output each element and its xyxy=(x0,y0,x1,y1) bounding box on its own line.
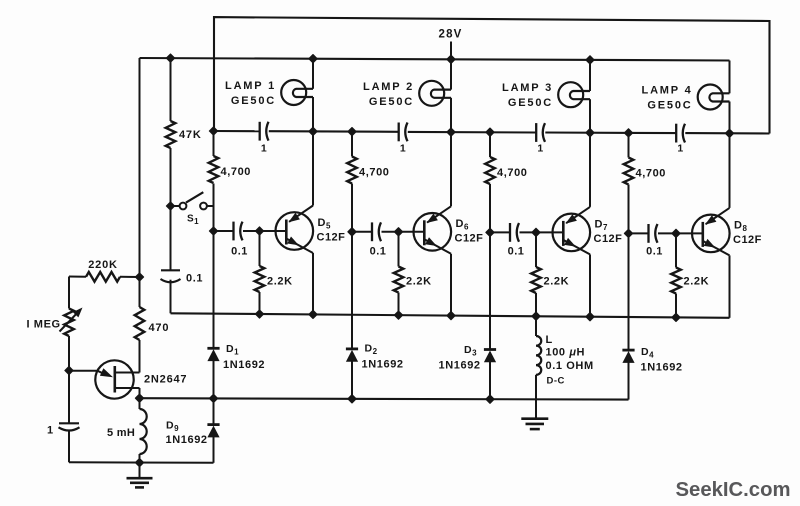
wire D2 to rail xyxy=(351,361,353,399)
node 2.2K / emitter rail (stage 1) xyxy=(255,310,263,318)
lamp LAMP2 GE50C symbol xyxy=(419,81,451,106)
label 1N1692 (D2) xyxy=(362,359,404,371)
label C12F (D8) xyxy=(733,234,762,246)
inductor 5 mH xyxy=(140,409,147,454)
label 470 xyxy=(149,322,170,334)
node D3 / rail xyxy=(486,395,494,403)
svg-text:0.1: 0.1 xyxy=(231,246,248,258)
node base1 / ground rail xyxy=(135,394,143,402)
wire 0.1 cap left lead (stage 2) xyxy=(352,231,372,233)
wire 28V feed stub xyxy=(450,42,452,60)
label D3 xyxy=(464,344,477,358)
resistor 2.2K (stage 2) xyxy=(394,267,404,293)
node 0.1 cap row stage1 xyxy=(209,227,217,235)
label 0.1 (stage 3) xyxy=(508,246,525,258)
svg-text:1N1692: 1N1692 xyxy=(641,362,683,374)
label 2.2K (stage 3) xyxy=(544,276,570,288)
wire 220K right lead xyxy=(120,276,140,278)
label 2N2647 xyxy=(144,374,187,386)
wire collector column (stage 4) xyxy=(729,133,731,208)
wire 1MEG junction to cap xyxy=(68,371,70,424)
svg-text:220K: 220K xyxy=(88,259,118,271)
wire D4 to rail xyxy=(628,362,630,400)
svg-text:LAMP 1: LAMP 1 xyxy=(225,80,276,92)
svg-text:GE50C: GE50C xyxy=(231,95,276,107)
svg-text:1: 1 xyxy=(400,143,406,155)
resistor 220K xyxy=(86,272,120,282)
wire lamp3 top lead xyxy=(589,60,591,91)
label 4,700 (stage 1) xyxy=(221,166,252,178)
label 4,700 (stage 4) xyxy=(636,168,667,180)
svg-text:GE50C: GE50C xyxy=(508,97,553,109)
label 1N1692 (D1) xyxy=(223,359,265,371)
ground (main) xyxy=(127,463,153,488)
transistor D7 C12F xyxy=(553,207,591,255)
svg-text:4,700: 4,700 xyxy=(221,166,252,178)
resistor 2.2K (stage 4) xyxy=(671,268,681,294)
label GE50C (lamp 1) xyxy=(231,95,276,107)
node 0.1 cap row stage2 xyxy=(348,228,356,236)
wire bottom ground rail xyxy=(69,461,214,464)
node 0.1 cap row stage4 xyxy=(624,229,632,237)
diode D2 1N1692 xyxy=(346,349,358,362)
wire 2.2K bottom lead (stage 4) xyxy=(675,294,677,318)
wire collector column (stage 1) xyxy=(312,131,314,205)
svg-text:LAMP 3: LAMP 3 xyxy=(502,82,553,94)
capacitor 0.1 (stage 4) xyxy=(649,224,658,243)
diode D1 1N1692 xyxy=(207,348,219,361)
label 0.1 (timing) xyxy=(186,273,203,285)
capacitor 0.1 (timing) xyxy=(161,270,181,282)
svg-text:4,700: 4,700 xyxy=(359,167,390,179)
label 4,700 (stage 3) xyxy=(497,167,528,179)
transistor D5 C12F xyxy=(276,206,314,254)
resistor 2.2K (stage 3) xyxy=(531,267,541,293)
svg-text:0.1 OHM: 0.1 OHM xyxy=(546,360,594,372)
wire 1MEG bottom lead xyxy=(68,336,70,371)
label C12F (D5) xyxy=(317,232,346,244)
junction cap row xyxy=(486,128,494,136)
svg-text:1: 1 xyxy=(47,425,54,437)
wire 470 to base two xyxy=(139,340,141,373)
label C12F (D7) xyxy=(594,233,623,245)
label D6 xyxy=(456,218,469,232)
wire cap to bottom rail xyxy=(68,430,70,463)
wire 2.2K top lead (stage 1) xyxy=(259,231,261,266)
wire 0.1 cap left lead (stage 1) xyxy=(214,230,234,232)
label 1N1692 (D4) xyxy=(641,362,683,374)
diode D4 1N1692 xyxy=(622,350,634,363)
junction cap row xyxy=(309,127,317,135)
svg-text:1N1692: 1N1692 xyxy=(223,359,265,371)
watermark SeekIC.com xyxy=(676,479,791,501)
wire 470 top lead xyxy=(139,277,141,307)
capacitor C1 value 1 xyxy=(260,122,269,141)
junction cap row xyxy=(624,129,632,137)
wire 0.1 cap left lead (stage 4) xyxy=(629,232,649,234)
wire L top lead xyxy=(535,316,537,336)
wire emitter rail xyxy=(171,313,730,318)
label D8 xyxy=(734,219,747,233)
label D-C xyxy=(547,376,565,387)
capacitor C2 value 1 xyxy=(399,123,408,142)
inductor L 100uH xyxy=(536,336,541,375)
svg-text:4,700: 4,700 xyxy=(636,168,667,180)
svg-text:I MEG: I MEG xyxy=(27,319,61,331)
wire D3 to rail xyxy=(489,362,491,400)
wire coupling capacitor row xyxy=(214,131,770,134)
wire emitter column (stage 4) xyxy=(729,255,731,317)
node cap row / loop input xyxy=(209,127,217,135)
wire 1MEG top lead xyxy=(68,277,70,309)
label D5 xyxy=(318,217,331,231)
svg-text:2.2K: 2.2K xyxy=(406,276,432,288)
label 220K xyxy=(88,259,118,271)
svg-text:0.1: 0.1 xyxy=(186,273,203,285)
wire 5mH top lead xyxy=(139,398,141,409)
svg-text:470: 470 xyxy=(149,322,170,334)
svg-text:1: 1 xyxy=(537,143,543,155)
node emitter junction xyxy=(65,366,73,374)
svg-text:C12F: C12F xyxy=(455,232,484,244)
wire 5mH bottom lead xyxy=(139,454,141,463)
label 1 (C1) xyxy=(261,143,267,155)
wire top feedback loop xyxy=(214,17,770,133)
label GE50C (lamp 4) xyxy=(647,100,692,112)
node 2.2K top (stage 4) xyxy=(672,229,680,237)
switch S1 xyxy=(171,192,214,209)
label 47K xyxy=(179,129,202,141)
node D1 / rail xyxy=(209,394,217,402)
node rail / 47K xyxy=(166,54,174,62)
capacitor 0.1 (stage 3) xyxy=(510,223,519,242)
label 100 uH xyxy=(546,347,586,359)
wire base column top (stage 1) xyxy=(213,131,215,156)
svg-text:4,700: 4,700 xyxy=(497,167,528,179)
wire 2.2K top lead (stage 2) xyxy=(398,232,400,267)
label 0.1 (stage 2) xyxy=(370,246,387,258)
svg-text:1: 1 xyxy=(261,143,267,155)
node S1 left xyxy=(166,202,174,210)
label 1N1692 (D3) xyxy=(439,360,481,372)
wire 47K bottom lead xyxy=(170,148,172,206)
diode D3 1N1692 xyxy=(484,350,496,363)
wire collector column (stage 2) xyxy=(450,132,452,206)
svg-text:2N2647: 2N2647 xyxy=(144,374,187,386)
label 1 (C2) xyxy=(400,143,406,155)
wire lamp1 bottom lead xyxy=(312,97,314,131)
wire lamp3 bottom lead xyxy=(589,99,591,133)
label 28V xyxy=(438,29,462,41)
label 2.2K (stage 4) xyxy=(684,276,710,288)
wire collector column (stage 3) xyxy=(589,133,591,207)
svg-text:0.1: 0.1 xyxy=(508,246,525,258)
svg-text:C12F: C12F xyxy=(733,234,762,246)
label 2.2K (stage 1) xyxy=(267,276,293,288)
svg-text:SeekIC.com: SeekIC.com xyxy=(676,479,791,501)
wire lamp2 top lead xyxy=(450,59,452,89)
label L xyxy=(546,334,553,346)
wire lamp1 top lead xyxy=(312,59,314,89)
diode D9 1N1692 xyxy=(207,425,219,438)
svg-text:GE50C: GE50C xyxy=(369,96,414,108)
wire 2.2K bottom lead (stage 2) xyxy=(398,293,400,316)
label D2 xyxy=(365,343,378,357)
label D1 xyxy=(226,343,239,357)
node emitter / rail (stage 1) xyxy=(309,310,317,318)
svg-text:L: L xyxy=(546,334,553,346)
resistor 4,700 (stage 3) xyxy=(485,157,495,184)
resistor 2.2K (stage 1) xyxy=(255,266,265,292)
svg-text:2.2K: 2.2K xyxy=(544,276,570,288)
svg-text:0.1: 0.1 xyxy=(370,246,387,258)
svg-text:2.2K: 2.2K xyxy=(267,276,293,288)
wire 2.2K bottom lead (stage 3) xyxy=(535,293,537,316)
wire 2.2K bottom lead (stage 1) xyxy=(259,292,261,314)
ground (L) xyxy=(521,419,548,429)
wire lamp4 top lead xyxy=(729,61,731,94)
node rail / lamp1 xyxy=(309,55,317,63)
svg-text:GE50C: GE50C xyxy=(647,100,692,112)
svg-text:1N1692: 1N1692 xyxy=(166,434,208,446)
resistor 1 MEG (variable) xyxy=(60,308,83,337)
label LAMP 2 xyxy=(363,81,414,93)
wire base lead (stage 3) xyxy=(520,231,564,233)
resistor 4,700 (stage 1) xyxy=(209,156,219,183)
label D7 xyxy=(595,218,608,232)
wire +28V rail xyxy=(140,58,730,61)
wire emitter column (stage 1) xyxy=(312,253,314,314)
svg-text:47K: 47K xyxy=(179,129,202,141)
node 5mH / bottom rail xyxy=(135,459,143,467)
wire base column stage1 xyxy=(213,184,215,349)
node 220K / 470 xyxy=(135,273,143,281)
svg-text:1N1692: 1N1692 xyxy=(439,360,481,372)
node 2.2K / emitter rail (stage 3) xyxy=(532,312,540,320)
wire base column stage4 xyxy=(628,185,630,351)
svg-text:1N1692: 1N1692 xyxy=(362,359,404,371)
lamp LAMP1 GE50C symbol xyxy=(281,80,313,105)
label D4 xyxy=(641,346,654,360)
wire base column top (stage 4) xyxy=(628,133,630,158)
node 2.2K top (stage 1) xyxy=(255,227,263,235)
node 28V rail / lamp2 xyxy=(447,55,455,63)
node 2.2K / emitter rail (stage 2) xyxy=(394,311,402,319)
wire emitter column (stage 2) xyxy=(450,254,452,316)
wire emitter column (stage 3) xyxy=(589,254,591,316)
wire lamp2 bottom lead xyxy=(450,98,452,132)
svg-text:C12F: C12F xyxy=(317,232,346,244)
svg-text:C12F: C12F xyxy=(594,233,623,245)
wire base lead (stage 4) xyxy=(658,232,703,234)
label LAMP 1 xyxy=(225,80,276,92)
svg-text:LAMP 4: LAMP 4 xyxy=(642,85,693,97)
node 2.2K top (stage 2) xyxy=(394,228,402,236)
wire D9 top lead xyxy=(213,398,215,424)
wire base column top (stage 3) xyxy=(489,133,491,158)
svg-text:2.2K: 2.2K xyxy=(684,276,710,288)
wire 0.1 cap left lead (stage 3) xyxy=(490,231,510,233)
wire S column to emitter rail xyxy=(170,280,172,314)
capacitor C4 value 1 xyxy=(676,124,685,143)
label 4,700 (stage 2) xyxy=(359,167,390,179)
node 0.1 cap row stage3 xyxy=(486,228,494,236)
label 1 (C3) xyxy=(537,143,543,155)
wire left rail column xyxy=(139,58,141,277)
capacitor 0.1 (stage 1) xyxy=(234,222,243,241)
svg-text:5 mH: 5 mH xyxy=(107,427,135,439)
label GE50C (lamp 2) xyxy=(369,96,414,108)
wire base lead (stage 2) xyxy=(382,231,425,233)
junction cap row xyxy=(586,129,594,137)
svg-text:D-C: D-C xyxy=(547,376,565,387)
capacitor 1 (emitter) xyxy=(59,423,80,430)
capacitor C3 value 1 xyxy=(536,123,545,142)
svg-text:28V: 28V xyxy=(438,29,462,41)
wire base column stage2 xyxy=(351,184,353,349)
label 5 mH xyxy=(107,427,135,439)
label LAMP 3 xyxy=(502,82,553,94)
node rail / lamp3 xyxy=(586,56,594,64)
wire S column to 0.1 cap xyxy=(170,206,172,270)
wire 2.2K top lead (stage 3) xyxy=(535,232,537,267)
label S1 xyxy=(187,214,199,227)
wire base column top (stage 2) xyxy=(351,132,353,157)
wire D1 to rail xyxy=(213,360,215,398)
svg-text:0.1: 0.1 xyxy=(646,246,663,258)
label LAMP 4 xyxy=(642,85,693,97)
label 0.1 (stage 1) xyxy=(231,246,248,258)
junction cap row xyxy=(348,128,356,136)
label 0.1 OHM xyxy=(546,360,594,372)
wire base column stage3 xyxy=(489,184,491,350)
junction cap row xyxy=(725,129,733,137)
resistor 4,700 (stage 2) xyxy=(347,157,357,184)
transistor D8 C12F xyxy=(692,208,730,256)
wire L bottom lead xyxy=(535,375,537,418)
node 2.2K / emitter rail (stage 4) xyxy=(672,313,680,321)
wire base-one rail xyxy=(140,398,629,399)
transistor D6 C12F xyxy=(414,206,452,254)
wire D9 bottom lead xyxy=(213,437,215,463)
svg-text:100 μH: 100 μH xyxy=(546,347,586,359)
node emitter / rail (stage 2) xyxy=(447,312,455,320)
wire lamp4 bottom lead xyxy=(729,102,731,134)
lamp LAMP3 GE50C symbol xyxy=(558,82,590,107)
lamp LAMP4 GE50C symbol xyxy=(698,85,730,110)
wire base one bend xyxy=(139,388,141,398)
label GE50C (lamp 3) xyxy=(508,97,553,109)
capacitor 0.1 (stage 2) xyxy=(372,222,381,241)
label 2.2K (stage 2) xyxy=(406,276,432,288)
label 1 MEG xyxy=(27,319,61,331)
junction cap row xyxy=(447,128,455,136)
wire 47K top lead xyxy=(170,58,172,121)
wire 2.2K top lead (stage 4) xyxy=(675,233,677,267)
label 1N1692 (D9) xyxy=(166,434,208,446)
node D2 / rail xyxy=(348,395,356,403)
wire base lead (stage 1) xyxy=(243,230,287,232)
resistor 47K xyxy=(166,121,176,148)
node 2.2K top (stage 3) xyxy=(532,228,540,236)
label 0.1 (stage 4) xyxy=(646,246,663,258)
svg-text:1: 1 xyxy=(677,143,683,155)
svg-text:LAMP 2: LAMP 2 xyxy=(363,81,414,93)
label D9 xyxy=(166,420,179,434)
transistor 2N2647 (UJT) xyxy=(69,360,140,398)
wire 220K left lead xyxy=(69,276,86,278)
label 1 (C4) xyxy=(677,143,683,155)
label 1 (emitter cap) xyxy=(47,425,54,437)
resistor 4,700 (stage 4) xyxy=(624,158,634,185)
node emitter / rail (stage 3) xyxy=(586,313,594,321)
resistor 470 xyxy=(135,307,145,340)
label C12F (D6) xyxy=(455,232,484,244)
